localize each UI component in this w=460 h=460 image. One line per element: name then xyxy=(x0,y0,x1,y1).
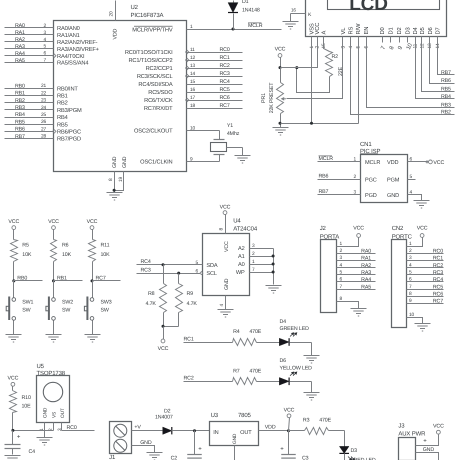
ground under C4 xyxy=(5,456,21,460)
svg-text:Y1: Y1 xyxy=(227,123,233,129)
wire net RA0 xyxy=(5,23,54,29)
svg-text:RB3/PGM: RB3/PGM xyxy=(57,107,82,114)
wire J3 pin1 to VCC xyxy=(416,435,439,446)
svg-text:AUX PWR: AUX PWR xyxy=(398,430,426,437)
svg-text:VCC: VCC xyxy=(8,219,19,225)
svg-text:RB4: RB4 xyxy=(57,115,68,121)
svg-text:PR1: PR1 xyxy=(261,93,267,103)
wire CN2 pin1 to VCC xyxy=(407,238,423,247)
svg-text:RA3: RA3 xyxy=(15,44,25,50)
svg-text:RA2/AN2/VREF-: RA2/AN2/VREF- xyxy=(57,39,98,46)
wire net RC7 xyxy=(187,103,243,109)
switch SW3 xyxy=(84,281,111,335)
svg-text:R3: R3 xyxy=(303,418,310,424)
wire CN2 pin7 net RC5 xyxy=(407,284,444,290)
svg-text:A: A xyxy=(322,31,328,35)
svg-text:D7: D7 xyxy=(436,27,442,34)
svg-text:RC3: RC3 xyxy=(220,71,230,77)
resistor R2 22E (LCD backlight) xyxy=(324,43,345,77)
svg-text:MCLR: MCLR xyxy=(365,160,380,166)
wire net RB5 xyxy=(5,119,54,125)
svg-text:RC0: RC0 xyxy=(220,47,230,53)
svg-text:PGD: PGD xyxy=(365,193,377,199)
wire J2 pin6 net RA4 xyxy=(337,277,376,283)
svg-text:RA0: RA0 xyxy=(361,248,371,254)
svg-text:RB6/PGC: RB6/PGC xyxy=(57,129,81,136)
ground U4 address pins xyxy=(266,286,282,294)
svg-text:VCC: VCC xyxy=(224,241,230,252)
svg-text:+: + xyxy=(280,447,284,453)
wire net MCLR to CN1 xyxy=(318,156,361,162)
svg-text:RC1: RC1 xyxy=(433,256,443,262)
svg-text:AT24C04: AT24C04 xyxy=(233,226,258,233)
svg-text:D6: D6 xyxy=(427,27,434,34)
wire R10 to U5 VS xyxy=(11,429,53,432)
ground LCD backlight K xyxy=(283,22,299,30)
svg-text:RA1: RA1 xyxy=(361,256,371,262)
svg-text:R9: R9 xyxy=(187,291,194,297)
wire LCD VL to PR1 wiper xyxy=(287,43,343,99)
svg-text:TSOP1738: TSOP1738 xyxy=(37,370,66,377)
wire J2 pin8 to ground xyxy=(337,296,359,309)
capacitor C4 xyxy=(5,431,36,456)
svg-text:RC7: RC7 xyxy=(433,299,443,305)
svg-text:RC7/RX/DT: RC7/RX/DT xyxy=(144,105,173,112)
svg-text:+V: +V xyxy=(134,425,141,431)
wire net RC3 xyxy=(187,71,243,77)
svg-text:9: 9 xyxy=(396,45,404,51)
svg-text:470E: 470E xyxy=(249,329,261,335)
svg-text:D1: D1 xyxy=(242,0,249,5)
wire net RC5 xyxy=(187,87,243,93)
svg-text:RB2: RB2 xyxy=(441,110,451,116)
svg-text:13: 13 xyxy=(427,43,433,49)
ground under SW2 xyxy=(46,335,62,343)
wire net RB6 xyxy=(5,127,54,133)
svg-text:GREEN LED: GREEN LED xyxy=(280,326,310,332)
wire net RB1 xyxy=(5,91,54,97)
diode D2 1N4007 xyxy=(155,408,210,434)
svg-text:VDD: VDD xyxy=(113,28,119,39)
svg-text:RC4/SDI/SDA: RC4/SDI/SDA xyxy=(138,81,172,88)
svg-text:RB4: RB4 xyxy=(15,112,25,118)
IC U2 PIC16F873A xyxy=(41,4,196,182)
svg-text:RA4/T0CKI: RA4/T0CKI xyxy=(57,53,85,60)
wire net RC2 xyxy=(184,376,233,382)
svg-text:RB5: RB5 xyxy=(57,122,68,128)
LED D6 YELLOW xyxy=(279,358,312,393)
IC U5 TSOP1738 (IR receiver) xyxy=(37,363,70,432)
svg-text:RC2: RC2 xyxy=(184,376,194,382)
svg-text:RB1: RB1 xyxy=(57,275,67,281)
ground crystal case xyxy=(235,156,251,164)
svg-text:RC1: RC1 xyxy=(184,336,194,342)
svg-text:YELLOW LED: YELLOW LED xyxy=(280,366,313,372)
wire CN1 GND pin xyxy=(408,195,422,201)
wire U5 GND pin to ground xyxy=(44,432,46,438)
svg-text:J2: J2 xyxy=(320,225,327,232)
svg-text:RC6: RC6 xyxy=(433,292,443,298)
svg-text:8: 8 xyxy=(219,228,225,231)
svg-text:RB3: RB3 xyxy=(441,103,451,109)
svg-text:RA0: RA0 xyxy=(15,23,25,29)
IC U3 7805 regulator xyxy=(210,412,259,446)
svg-text:C4: C4 xyxy=(29,449,36,455)
svg-text:RC6: RC6 xyxy=(220,95,230,101)
svg-text:470E: 470E xyxy=(319,418,331,424)
svg-text:K: K xyxy=(308,12,312,18)
svg-text:RS: RS xyxy=(348,26,355,34)
svg-text:470E: 470E xyxy=(249,368,261,374)
ground U5 xyxy=(37,438,53,446)
wire J2 pin5 net RA3 xyxy=(337,270,376,276)
svg-text:4Mhz: 4Mhz xyxy=(227,131,240,137)
wire CN1 VDD to VCC xyxy=(408,161,429,163)
svg-text:D2: D2 xyxy=(164,408,171,414)
svg-text:RB5: RB5 xyxy=(441,87,451,93)
wire CN2 pin4 net RC2 xyxy=(407,262,444,268)
svg-text:10: 10 xyxy=(409,312,415,318)
svg-text:VCC: VCC xyxy=(433,424,444,430)
svg-text:RC4: RC4 xyxy=(433,277,443,283)
LED D3 RED xyxy=(339,431,375,460)
crystal Y1 4Mhz xyxy=(187,123,240,162)
wire net RB1 xyxy=(52,275,83,282)
power VCC at CN2 xyxy=(417,225,428,237)
power VCC (LCD section) xyxy=(275,47,286,70)
svg-text:OUT: OUT xyxy=(240,430,252,436)
power VCC below R8/R9 xyxy=(158,339,169,352)
svg-text:22K PRESET: 22K PRESET xyxy=(269,82,275,114)
svg-text:R6: R6 xyxy=(62,243,69,249)
svg-text:12: 12 xyxy=(419,43,425,49)
svg-text:VCC: VCC xyxy=(158,346,169,352)
svg-text:A1: A1 xyxy=(238,254,245,260)
switch SW1 xyxy=(6,281,33,335)
connector J1 power terminal xyxy=(109,422,131,460)
svg-text:RC5: RC5 xyxy=(433,284,443,290)
svg-text:A0: A0 xyxy=(238,262,245,268)
svg-text:RB2: RB2 xyxy=(15,98,25,104)
svg-text:SW3: SW3 xyxy=(101,300,112,306)
svg-text:U2: U2 xyxy=(131,4,139,11)
svg-text:RB7/PGD: RB7/PGD xyxy=(57,136,81,143)
svg-text:GND: GND xyxy=(112,156,118,168)
svg-text:VDD: VDD xyxy=(265,425,276,431)
ground CN1 xyxy=(414,201,430,209)
wire CN2 pin3 net RC1 xyxy=(407,255,444,261)
svg-text:RC1/T1OSI/CCP2: RC1/T1OSI/CCP2 xyxy=(128,57,172,64)
wire U4 address pins A2 A1 A0 WP xyxy=(250,249,275,285)
svg-text:RC0/T1OSO/T1CKI: RC0/T1OSO/T1CKI xyxy=(125,49,173,56)
svg-text:RC2: RC2 xyxy=(433,263,443,269)
svg-text:CN1: CN1 xyxy=(360,141,372,148)
svg-text:RB0/INT: RB0/INT xyxy=(57,85,78,92)
svg-text:D3: D3 xyxy=(351,448,358,454)
svg-text:22E: 22E xyxy=(338,66,344,76)
svg-text:RB6: RB6 xyxy=(15,127,25,133)
svg-text:RB7: RB7 xyxy=(319,189,329,195)
svg-text:4.7K: 4.7K xyxy=(146,301,157,307)
svg-text:IN: IN xyxy=(213,430,218,436)
svg-text:PORTA: PORTA xyxy=(320,234,340,241)
wire net RA1 xyxy=(5,30,54,36)
power VCC above R6 xyxy=(48,219,59,240)
wire LCD D5 to net RB5 xyxy=(422,43,455,93)
svg-text:VCC: VCC xyxy=(284,408,295,414)
svg-text:R4: R4 xyxy=(233,329,240,335)
connector J3 AUX PWR xyxy=(398,422,426,460)
svg-text:U4: U4 xyxy=(233,218,241,225)
svg-text:RA4: RA4 xyxy=(15,51,25,57)
wire net RC1 xyxy=(187,55,243,61)
connector CN1 PIC ISP xyxy=(353,141,412,203)
wire net RA2 xyxy=(5,37,54,43)
svg-text:PGM: PGM xyxy=(387,177,400,183)
svg-text:CN2: CN2 xyxy=(392,225,404,232)
resistor R6 10K xyxy=(51,240,72,281)
wire R2 to VCC rail xyxy=(295,66,329,92)
svg-text:RB3: RB3 xyxy=(15,105,25,111)
connector J2 PORTA xyxy=(320,225,340,313)
power VCC above R11 xyxy=(87,219,98,240)
svg-text:WP: WP xyxy=(236,270,245,276)
svg-text:8: 8 xyxy=(108,178,114,181)
wire LCD R/W to ground rail xyxy=(358,43,360,124)
svg-text:7: 7 xyxy=(380,46,387,51)
svg-text:RC4: RC4 xyxy=(141,259,151,265)
wire LCD K pin to ground xyxy=(291,14,306,22)
wire U3 OUT / net VDD xyxy=(259,425,291,433)
svg-text:U5: U5 xyxy=(37,363,45,370)
svg-text:1N4007: 1N4007 xyxy=(155,415,173,421)
svg-text:SW1: SW1 xyxy=(22,300,33,306)
power VCC above R10 xyxy=(8,376,19,391)
svg-text:VL: VL xyxy=(341,27,347,35)
wire net RB6 to CN1 xyxy=(318,173,361,179)
svg-text:SW: SW xyxy=(101,308,109,314)
svg-text:R11: R11 xyxy=(101,243,110,249)
svg-text:+: + xyxy=(198,447,202,453)
svg-text:VCC: VCC xyxy=(87,219,98,225)
wire U3 GND pin xyxy=(234,446,236,460)
svg-text:RC4: RC4 xyxy=(220,79,230,85)
svg-text:SCL: SCL xyxy=(206,271,216,277)
svg-text:J3: J3 xyxy=(398,422,405,429)
svg-text:16: 16 xyxy=(291,8,296,13)
svg-text:GND: GND xyxy=(387,193,399,199)
wire net RA5 xyxy=(5,58,54,64)
wire net RC4 to U4 SDA xyxy=(137,259,203,266)
svg-text:VCC: VCC xyxy=(314,23,321,35)
resistor R9 4.7K xyxy=(176,274,198,327)
resistor R11 10K xyxy=(89,240,111,281)
wire LCD D6 to net RB6 xyxy=(430,43,455,85)
wire net RB0 xyxy=(12,275,42,282)
wire net RB7 xyxy=(5,134,54,140)
svg-text:SW: SW xyxy=(62,308,70,314)
wire CN1 pin5 stub xyxy=(408,179,416,181)
svg-text:RA2: RA2 xyxy=(15,37,25,43)
svg-text:GND: GND xyxy=(224,278,230,290)
wire net MCLR xyxy=(187,23,282,31)
switch SW2 xyxy=(46,281,73,335)
resistor R7 470E xyxy=(233,368,280,384)
svg-text:LCD: LCD xyxy=(349,0,388,15)
svg-text:RC3: RC3 xyxy=(141,267,151,273)
ground U4 xyxy=(218,310,234,318)
wire J1 +V to D2 xyxy=(132,425,163,431)
wire J3 pin2 GND xyxy=(416,447,439,460)
svg-text:SW2: SW2 xyxy=(62,300,73,306)
svg-text:VCC: VCC xyxy=(220,205,231,211)
svg-text:10E: 10E xyxy=(22,404,32,410)
svg-text:PGC: PGC xyxy=(365,177,377,183)
svg-text:RA5/SS/AN4: RA5/SS/AN4 xyxy=(57,60,88,67)
svg-text:VDD: VDD xyxy=(387,160,398,166)
power VCC at U4 xyxy=(220,205,231,234)
svg-text:SW: SW xyxy=(22,308,30,314)
svg-text:EN: EN xyxy=(364,27,370,35)
wire J2 pin4 net RA2 xyxy=(337,262,376,268)
svg-text:RC0: RC0 xyxy=(433,248,443,254)
svg-text:GND: GND xyxy=(43,407,49,418)
svg-text:RB0: RB0 xyxy=(15,83,25,89)
svg-text:U3: U3 xyxy=(211,412,219,419)
svg-text:R8: R8 xyxy=(148,291,155,297)
svg-text:1: 1 xyxy=(340,241,343,247)
wire VCC rail to LCD VCC pin xyxy=(281,67,318,69)
resistor R3 470E xyxy=(289,418,345,435)
svg-text:D3: D3 xyxy=(405,27,412,34)
wire net RB2 xyxy=(5,98,54,104)
svg-text:GND: GND xyxy=(423,447,435,453)
svg-text:OSC1/CLKIN: OSC1/CLKIN xyxy=(140,159,172,166)
svg-text:C3: C3 xyxy=(302,455,309,460)
svg-text:RA5: RA5 xyxy=(15,58,25,64)
wire net RC2 xyxy=(187,63,243,69)
svg-text:VCC: VCC xyxy=(417,225,428,231)
wire LCD D7 to net RB7 xyxy=(438,43,455,77)
svg-text:D2: D2 xyxy=(396,27,403,34)
wire LCD VSS to ground rail xyxy=(311,43,313,124)
svg-text:D6: D6 xyxy=(280,358,287,364)
power VCC at U3 output xyxy=(284,408,295,431)
resistor R5 10K xyxy=(11,240,32,281)
svg-text:RC7: RC7 xyxy=(220,103,230,109)
svg-text:OUT: OUT xyxy=(60,408,66,418)
svg-text:MCLR/VPP/THV: MCLR/VPP/THV xyxy=(132,27,173,34)
svg-text:+: + xyxy=(423,439,427,445)
svg-text:VCC: VCC xyxy=(275,47,286,53)
svg-text:OSC2/CLKOUT: OSC2/CLKOUT xyxy=(134,128,173,135)
wire J1 GND xyxy=(132,440,155,453)
wire J2 pin7 net RA5 xyxy=(337,284,376,290)
power VCC above R5 xyxy=(8,219,19,240)
svg-text:R10: R10 xyxy=(22,395,31,401)
wire net RC0 xyxy=(187,47,243,53)
power VCC at J2 xyxy=(353,225,364,237)
svg-text:RA4: RA4 xyxy=(361,277,371,283)
LED D4 GREEN xyxy=(279,319,311,356)
wire LCD VCC to VCC rail xyxy=(281,43,318,68)
svg-text:10K: 10K xyxy=(101,252,111,258)
wire CN2 pin9 net RC7 xyxy=(407,298,444,304)
svg-text:RC6/TX/CK: RC6/TX/CK xyxy=(144,97,173,104)
svg-text:4: 4 xyxy=(219,304,225,307)
svg-text:VCC: VCC xyxy=(48,219,59,225)
wire CN2 pin5 net RC3 xyxy=(407,270,444,276)
power VCC at J3 xyxy=(433,424,444,435)
LCD module xyxy=(291,0,447,51)
svg-text:1N4148: 1N4148 xyxy=(242,8,260,14)
svg-text:3: 3 xyxy=(340,46,346,49)
wire CN2 pin2 net RC0 xyxy=(407,248,444,254)
wire net RC3 to U4 SCL xyxy=(137,267,201,274)
svg-text:GND: GND xyxy=(232,433,238,444)
ground J1 xyxy=(147,453,163,460)
wire crystal case to ground xyxy=(227,147,243,149)
svg-text:D4: D4 xyxy=(413,26,419,34)
svg-text:GND: GND xyxy=(140,440,152,446)
ground D4 xyxy=(304,356,320,364)
svg-text:RB0: RB0 xyxy=(17,275,27,281)
ground under SW1 xyxy=(6,335,22,343)
wire net RB4 xyxy=(5,112,54,118)
wire J2 pin1 to VCC xyxy=(337,238,359,247)
svg-text:VCC: VCC xyxy=(353,225,364,231)
svg-text:4.7K: 4.7K xyxy=(187,301,198,307)
svg-text:10K: 10K xyxy=(62,252,72,258)
wire VDD pin 20 xyxy=(115,1,117,21)
svg-text:RB7: RB7 xyxy=(441,70,451,76)
wire net RC7 xyxy=(91,275,121,282)
svg-text:A2: A2 xyxy=(238,246,245,252)
wire J2 pin3 net RA1 xyxy=(337,255,376,261)
svg-text:GND: GND xyxy=(122,156,128,168)
svg-text:RB4: RB4 xyxy=(441,94,451,100)
ground under U2 xyxy=(107,193,123,201)
svg-text:VS: VS xyxy=(51,412,57,418)
svg-text:MCLR: MCLR xyxy=(319,156,334,162)
ground CN2 xyxy=(415,324,431,332)
svg-text:RA5: RA5 xyxy=(361,284,371,290)
IC U4 AT24C04 xyxy=(195,218,257,307)
capacitor C2 xyxy=(171,431,203,460)
svg-text:RB6: RB6 xyxy=(319,173,329,179)
wire R8/R9 common to VCC xyxy=(162,325,179,340)
svg-text:RC1: RC1 xyxy=(220,55,230,61)
resistor R8 4.7K xyxy=(146,265,167,327)
svg-text:RC5: RC5 xyxy=(220,87,230,93)
svg-text:C2: C2 xyxy=(171,455,178,460)
svg-text:D1: D1 xyxy=(389,27,395,34)
svg-text:RC2/CCP1: RC2/CCP1 xyxy=(146,65,173,72)
wire net RA4 xyxy=(5,51,54,57)
svg-text:R5: R5 xyxy=(22,243,29,249)
svg-text:8: 8 xyxy=(388,45,396,51)
wire net RB3 xyxy=(5,105,54,111)
wire LCD D4 to net RB4 xyxy=(416,43,455,101)
svg-text:RC0: RC0 xyxy=(67,425,77,431)
svg-text:RB5: RB5 xyxy=(15,119,25,125)
wire U4 GND pin xyxy=(225,296,227,310)
connector CN2 PORTC xyxy=(392,225,413,328)
wire net RC6 xyxy=(187,95,243,101)
svg-text:RC7: RC7 xyxy=(96,275,106,281)
resistor R10 10E xyxy=(10,391,32,431)
svg-text:D0: D0 xyxy=(379,27,386,34)
